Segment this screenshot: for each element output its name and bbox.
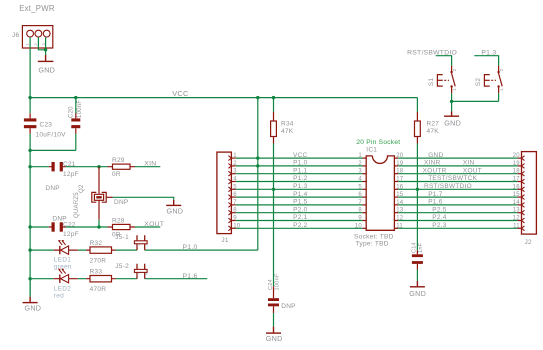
svg-text:0R: 0R: [112, 171, 121, 178]
svg-text:47K: 47K: [281, 128, 294, 135]
wire row 16 IC1 to J2: [398, 188, 517, 190]
wire left rail to ground: [29, 279, 31, 297]
svg-text:DNP: DNP: [114, 199, 128, 206]
resistor R29 0R: [108, 166, 136, 168]
pin J1-3: [228, 171, 231, 176]
svg-text:270R: 270R: [90, 257, 107, 264]
svg-text:7: 7: [358, 200, 362, 206]
pin IC1-18: [394, 173, 398, 175]
svg-text:R32: R32: [90, 240, 103, 247]
svg-text:J5-2: J5-2: [115, 263, 129, 270]
junction VCC-C20: [74, 96, 77, 99]
svg-text:C23: C23: [40, 121, 53, 128]
junction switches-GND: [450, 100, 453, 103]
svg-text:P1.5: P1.5: [293, 199, 308, 206]
capacitor C14 1nF: [416, 250, 418, 269]
junction row1: [256, 156, 259, 159]
svg-text:S2: S2: [475, 78, 482, 87]
pin J2-13: [522, 210, 525, 215]
pin IC1-14: [394, 204, 398, 206]
wire row 2 J1 to IC1: [236, 165, 363, 167]
junction crystal top / XIN row: [97, 165, 100, 168]
pin IC1-1: [363, 157, 367, 159]
jumper J5-1: [137, 235, 145, 250]
svg-text:15: 15: [513, 192, 521, 198]
wire crystal bottom to XOUT row: [98, 220, 100, 227]
wire row 18 IC1 to J2: [398, 173, 517, 175]
junction VCC-J6: [28, 96, 31, 99]
pin J2-12: [522, 218, 525, 223]
svg-text:C21: C21: [63, 161, 76, 168]
svg-text:16: 16: [513, 184, 521, 190]
svg-text:TEST/SBWTCK: TEST/SBWTCK: [428, 175, 477, 182]
capacitor C23: [24, 113, 37, 133]
wire RST/SBWTDIO to S1: [436, 56, 452, 66]
svg-text:17: 17: [513, 177, 521, 183]
junction left rail / LED1 row: [28, 248, 31, 251]
resistor R27 47K: [416, 98, 418, 112]
svg-text:P1.6: P1.6: [183, 273, 198, 280]
jumper J5-2: [137, 264, 145, 279]
pin J1-7: [228, 203, 231, 208]
svg-text:P1.4: P1.4: [293, 191, 308, 198]
svg-text:Socket: TBD: Socket: TBD: [354, 234, 394, 241]
svg-text:12: 12: [513, 216, 521, 222]
svg-text:100nF: 100nF: [275, 273, 281, 290]
svg-text:P2.1: P2.1: [293, 214, 308, 221]
pin IC1-3: [363, 173, 367, 175]
svg-text:2: 2: [452, 68, 457, 71]
svg-text:GND: GND: [409, 289, 426, 298]
svg-text:red: red: [54, 292, 64, 299]
junction P1.3 row: [272, 188, 275, 191]
svg-text:RST/SBWTDIO: RST/SBWTDIO: [424, 183, 472, 190]
wire VCC rail: [30, 97, 417, 99]
capacitor C21 12pF: [49, 166, 66, 168]
pin IC1-20: [394, 157, 398, 159]
wire row 7 J1 to IC1: [236, 204, 363, 206]
svg-text:GND: GND: [167, 207, 184, 216]
pin J2-16: [522, 187, 525, 192]
svg-text:12pF: 12pF: [63, 171, 79, 178]
pin J2-11: [522, 226, 525, 231]
pin IC1-6: [363, 196, 367, 198]
svg-text:47K: 47K: [427, 128, 440, 135]
pin IC1-17: [394, 181, 398, 183]
svg-text:P1.2: P1.2: [293, 175, 308, 182]
wire J6 pin1 to VCC rail: [29, 37, 31, 97]
crystal Q2 QUARZ5: [92, 167, 106, 203]
svg-text:1: 1: [358, 153, 362, 159]
svg-text:J5-1: J5-1: [115, 234, 129, 241]
junction crystal bottom / XOUT row: [97, 225, 100, 228]
connector J2: [522, 152, 537, 235]
pin J1-1: [228, 156, 231, 161]
svg-text:1nF: 1nF: [418, 242, 424, 253]
svg-text:DNP: DNP: [45, 185, 59, 192]
pin J2-19: [522, 164, 525, 169]
svg-text:P1.3: P1.3: [293, 183, 308, 190]
LED LED1 green: [54, 249, 78, 251]
svg-text:P2.0: P2.0: [293, 206, 308, 213]
ground GND mid: [166, 200, 181, 206]
capacitor C24 100nF: [273, 286, 275, 313]
svg-text:DNP: DNP: [281, 303, 295, 310]
svg-text:6: 6: [358, 192, 362, 198]
wire S2 bottom: [498, 93, 500, 101]
svg-text:S1: S1: [428, 78, 435, 87]
wire S1 bottom: [451, 93, 453, 101]
pin J2-18: [522, 171, 525, 176]
wire LED2 row: [30, 278, 207, 280]
svg-text:4: 4: [358, 177, 362, 183]
svg-text:19: 19: [513, 161, 521, 167]
svg-text:GND: GND: [266, 334, 283, 343]
svg-text:C24: C24: [268, 279, 274, 290]
wire row 15 IC1 to J2: [398, 196, 517, 198]
svg-text:9: 9: [358, 216, 362, 222]
capacitor C22 12pF: [49, 226, 66, 228]
pin IC1-10: [363, 227, 367, 229]
junction J6 pins2-3: [44, 48, 47, 51]
connector J1: [217, 152, 232, 234]
wire S1-S2 bottoms: [452, 100, 499, 102]
svg-text:XIN: XIN: [144, 161, 156, 168]
capacitor C20 100nF: [75, 98, 77, 151]
pin J2-14: [522, 203, 525, 208]
wire row 8 J1 to IC1: [236, 212, 363, 214]
svg-text:Q2: Q2: [79, 184, 85, 193]
wire VCC tap vertical to P1.0: [257, 98, 259, 251]
svg-text:P1.1: P1.1: [293, 167, 308, 174]
pin J1-2: [228, 164, 231, 169]
wire row 10 J1 to IC1: [236, 227, 363, 229]
pin IC1-7: [363, 204, 367, 206]
connector J6: [22, 26, 52, 48]
wire C14 to ground: [416, 270, 418, 282]
wire R34 down to C24: [273, 144, 275, 287]
pin J2-15: [522, 195, 525, 200]
resistor R28 0R: [108, 226, 136, 228]
op-amp U1 socket IC1: [366, 156, 394, 230]
svg-text:P2.4: P2.4: [432, 214, 447, 221]
svg-text:LED2: LED2: [54, 285, 71, 292]
pin IC1-15: [394, 196, 398, 198]
resistor R34 47K: [273, 98, 275, 112]
svg-text:P1.0: P1.0: [293, 160, 308, 167]
ground GND switches: [444, 112, 459, 117]
pin IC1-11: [394, 227, 398, 229]
wire R27 down to C14: [416, 144, 418, 251]
svg-text:VCC: VCC: [172, 89, 189, 98]
junction left rail / C22 row: [28, 225, 31, 228]
wire J6 pin3: [45, 37, 47, 55]
svg-text:GND: GND: [444, 118, 461, 127]
svg-text:J2: J2: [525, 239, 533, 246]
wire row 1 J1 to IC1: [236, 157, 363, 159]
svg-text:10uF/10V: 10uF/10V: [36, 131, 67, 138]
svg-text:P2.5: P2.5: [432, 206, 447, 213]
pin J2-20: [522, 156, 525, 161]
svg-text:P1.0: P1.0: [183, 244, 198, 251]
svg-text:XOUT: XOUT: [463, 167, 482, 174]
ground GND below J6: [38, 55, 54, 61]
svg-text:11: 11: [513, 223, 520, 229]
svg-text:XIN: XIN: [463, 160, 475, 167]
pin J1-10: [228, 226, 231, 231]
svg-text:QUARZ5: QUARZ5: [74, 192, 80, 218]
wire row 12 IC1 to J2: [398, 220, 517, 222]
resistor R32 270R: [86, 249, 116, 251]
svg-text:Ext_PWR: Ext_PWR: [19, 4, 55, 13]
svg-text:18: 18: [513, 169, 521, 175]
pin J1-5: [228, 187, 231, 192]
svg-text:2: 2: [358, 161, 362, 167]
pin J2-17: [522, 179, 525, 184]
wire LED1 row: [30, 249, 258, 251]
pin IC1-19: [394, 165, 398, 167]
svg-text:R28: R28: [112, 218, 125, 225]
svg-text:C20: C20: [69, 106, 75, 118]
svg-text:14: 14: [513, 200, 521, 206]
pin J1-8: [228, 210, 231, 215]
svg-text:10: 10: [355, 223, 363, 229]
svg-text:20 Pin Socket: 20 Pin Socket: [356, 139, 400, 146]
junction left rail / C21 row: [28, 165, 31, 168]
svg-text:2: 2: [499, 68, 504, 71]
wire left vertical rail: [29, 98, 31, 297]
pin IC1-4: [363, 181, 367, 183]
switch S2: [484, 66, 502, 94]
wire row 17 IC1 to J2: [398, 181, 517, 183]
svg-text:DNP: DNP: [52, 215, 66, 222]
svg-text:C14: C14: [411, 242, 417, 253]
junction VCC-R34: [272, 96, 275, 99]
junction RST row: [416, 188, 419, 191]
pin IC1-13: [394, 212, 398, 214]
pin J1-6: [228, 195, 231, 200]
svg-text:100nF: 100nF: [77, 100, 83, 118]
wire J6 pin2: [38, 37, 45, 50]
svg-text:XINR: XINR: [424, 160, 441, 167]
svg-text:GND: GND: [428, 152, 443, 159]
svg-text:3: 3: [358, 169, 362, 175]
svg-text:P2.3: P2.3: [432, 222, 447, 229]
wire crystal case to GND: [106, 196, 112, 198]
wire XIN row: [30, 166, 160, 168]
svg-text:P1.7: P1.7: [428, 191, 443, 198]
svg-text:20: 20: [513, 153, 521, 159]
junction left rail / LED2 row: [28, 277, 31, 280]
wire P1.3 to S2: [474, 56, 498, 66]
svg-text:LED1: LED1: [54, 257, 71, 264]
resistor R33 470R: [86, 278, 116, 280]
pin J1-9: [228, 218, 231, 223]
pin IC1-16: [394, 188, 398, 190]
LED LED2 red: [54, 278, 78, 280]
wire C23/C20 bottom join: [30, 149, 76, 151]
pin IC1-5: [363, 188, 367, 190]
wire row 14 IC1 to J2: [398, 204, 517, 206]
svg-text:5: 5: [358, 184, 362, 190]
svg-text:J1: J1: [221, 237, 229, 244]
svg-text:XOUT: XOUT: [144, 221, 164, 228]
svg-text:R34: R34: [281, 121, 294, 128]
pin IC1-2: [363, 165, 367, 167]
svg-text:P2.2: P2.2: [293, 222, 308, 229]
svg-text:IC1: IC1: [366, 147, 377, 154]
ground GND bottom-left: [23, 297, 38, 303]
wire row 3 J1 to IC1: [236, 173, 363, 175]
wire row 20 IC1 to J2: [398, 157, 517, 159]
wire row 6 J1 to IC1: [236, 196, 363, 198]
svg-text:J6: J6: [12, 32, 20, 39]
svg-text:8: 8: [358, 208, 362, 214]
wire row 9 J1 to IC1: [236, 220, 363, 222]
ground GND below C24: [266, 327, 281, 334]
wire row 13 IC1 to J2: [398, 212, 517, 214]
svg-text:R33: R33: [90, 269, 103, 276]
junction row2: [256, 164, 259, 167]
svg-text:13: 13: [513, 208, 521, 214]
wire row 11 IC1 to J2: [398, 227, 517, 229]
ground GND below C14: [410, 281, 425, 287]
pin IC1-8: [363, 212, 367, 214]
wire to switch ground: [451, 101, 453, 111]
pin IC1-12: [394, 220, 398, 222]
svg-text:R29: R29: [112, 157, 125, 164]
svg-text:XOUTR: XOUTR: [423, 167, 447, 174]
wire row 19 IC1 to J2: [398, 165, 517, 167]
svg-text:470R: 470R: [90, 286, 107, 293]
svg-text:1: 1: [499, 88, 504, 91]
svg-text:GND: GND: [38, 65, 55, 74]
wire XOUT row: [30, 226, 160, 228]
pin IC1-9: [363, 220, 367, 222]
pin J1-4: [228, 179, 231, 184]
svg-text:R27: R27: [427, 121, 440, 128]
svg-text:Type: TBD: Type: TBD: [356, 241, 389, 248]
svg-text:C22: C22: [63, 222, 76, 229]
switch S1: [437, 66, 455, 94]
junction VCC tap x258: [256, 96, 259, 99]
wire row 4 J1 to IC1: [236, 181, 363, 183]
svg-text:GND: GND: [25, 304, 42, 313]
wire C24 to ground: [273, 313, 275, 327]
svg-text:1: 1: [452, 88, 457, 91]
svg-text:P1.6: P1.6: [428, 199, 443, 206]
svg-text:VCC: VCC: [293, 152, 308, 159]
wire row 5 J1 to IC1: [236, 188, 363, 190]
svg-text:12pF: 12pF: [63, 231, 79, 238]
